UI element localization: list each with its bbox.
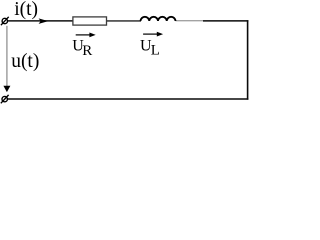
resistor R <box>73 17 107 25</box>
terminal bottom-left <box>1 95 9 103</box>
wire inductor lead (grey) <box>176 20 204 22</box>
svg-text:u(t): u(t) <box>11 51 39 72</box>
wire bottom <box>8 98 249 100</box>
terminal top-left <box>1 17 9 25</box>
svg-text:i(t): i(t) <box>14 0 38 20</box>
wire resistor to inductor <box>106 20 141 22</box>
current arrow i(t) <box>39 18 49 24</box>
wire right side <box>247 20 249 100</box>
svg-text:R: R <box>82 43 92 59</box>
inductor L coil <box>141 17 176 21</box>
svg-text:L: L <box>151 43 160 59</box>
wire top right segment <box>203 20 248 22</box>
wire top (terminal to resistor) <box>8 20 74 22</box>
label UL vector arrow <box>143 32 163 37</box>
label UR vector arrow <box>76 33 96 38</box>
voltage arrow u(t) line <box>6 26 8 87</box>
voltage arrow u(t) head <box>3 86 10 92</box>
